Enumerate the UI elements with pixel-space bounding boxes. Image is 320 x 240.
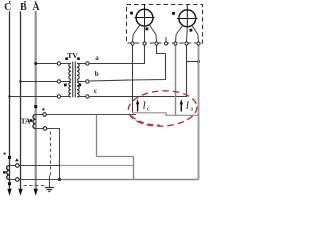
wire T7 down right side: [198, 46, 200, 180]
wire B to TV primary: [21, 81, 59, 83]
transformer TA-C marks: [4, 153, 6, 155]
TV primary upper winding: [69, 63, 71, 79]
node B label: [20, 1, 27, 13]
wire a line to meter: [89, 46, 144, 64]
wire Z-path vertical x96: [96, 115, 98, 157]
dashed ground cable vertical: [50, 132, 52, 177]
TV polarity squares: [64, 57, 81, 86]
wire c line to meter: [89, 46, 186, 97]
node C label: [4, 1, 11, 13]
TA-A winding: [33, 115, 36, 129]
TV winding leads: [61, 63, 86, 97]
M2 polarity squares: [172, 12, 175, 15]
wire phase A bus: [35, 11, 37, 190]
junction on A: [34, 62, 37, 65]
meter box dashed: [127, 5, 203, 44]
node A label: [32, 1, 40, 13]
wire phase B bus: [20, 11, 22, 189]
TV secondary upper winding: [77, 63, 79, 79]
wire bridge T6-T7: [187, 61, 199, 63]
wire T5 current down: [175, 46, 177, 116]
wire C to TV primary: [10, 96, 59, 98]
wire b line to meter: [89, 54, 165, 82]
svg-text:a: a: [95, 54, 99, 62]
TA-C k2 terminal: [15, 178, 19, 182]
wire phase C bus: [9, 11, 11, 189]
dashed ground cable horizontal: [24, 185, 47, 187]
TA-C polarity square: [3, 171, 6, 174]
TA-A k2 terminal: [43, 127, 47, 131]
TV terminal a: [86, 62, 89, 65]
meter M2: [179, 10, 196, 27]
wire rail grey part: [62, 179, 199, 181]
M1 polarity squares: [130, 12, 133, 15]
red highlight ellipse: [127, 89, 197, 128]
wire k1 lead grey continuation: [60, 165, 134, 167]
M2 cross: [177, 18, 197, 20]
svg-text:TV: TV: [67, 51, 78, 60]
arrow phase A bottom: [34, 189, 38, 196]
TV terminal C: [57, 95, 60, 98]
wire grey segment to T5/T7: [133, 113, 199, 116]
arrow Ia: [180, 102, 182, 112]
wire A to TV primary: [36, 63, 58, 65]
svg-text:c: c: [147, 106, 150, 113]
svg-text:I: I: [185, 101, 190, 112]
TV terminal A: [57, 62, 60, 65]
TV terminal b: [86, 80, 89, 83]
junction on C: [8, 95, 10, 97]
svg-text:b: b: [95, 70, 99, 78]
TV primary lower winding: [69, 82, 71, 97]
wire Z-path vertical x133: [133, 157, 135, 180]
TV terminal B: [57, 80, 60, 83]
transformer TV core: [73, 62, 76, 98]
M1 fan wires: [133, 25, 157, 42]
junction T7 bridge: [197, 60, 200, 63]
ground symbol: [45, 188, 54, 192]
arrow Ic: [137, 102, 139, 112]
TA-C lower mark: [8, 182, 11, 185]
M1 cross: [134, 17, 154, 19]
junction on B: [19, 80, 21, 82]
TA-C k1 terminal: [15, 164, 19, 168]
TA-C winding: [7, 166, 10, 180]
arrow phase B bottom: [18, 189, 22, 196]
meter M1: [136, 9, 153, 26]
wire TA-A k1 lead long line: [36, 114, 136, 116]
TA-A polarity square: [30, 119, 33, 122]
wire bridge T3-T4: [157, 46, 166, 54]
svg-text:c: c: [94, 87, 97, 95]
TA-A dot: [42, 108, 44, 110]
wire Z-path horizontal y156: [97, 156, 134, 158]
arrow phase C bottom: [7, 189, 11, 196]
stub above T4: [165, 37, 167, 42]
TA-A primary mark: [34, 105, 37, 108]
svg-text:I: I: [142, 101, 147, 112]
TA-C arrow mark: [15, 158, 19, 161]
svg-text:TA: TA: [21, 116, 31, 125]
wire T1 current down: [132, 46, 134, 113]
wire bottom rail: [10, 179, 63, 181]
wire TA-A k2 lead: [36, 129, 60, 180]
wire TA-C k1 lead: [10, 165, 61, 167]
svg-text:C: C: [4, 2, 11, 13]
M2 fan wires: [176, 25, 199, 42]
TV secondary lower winding: [77, 82, 79, 97]
svg-text:a: a: [190, 106, 193, 113]
TV terminal c: [86, 95, 89, 98]
junction k2 to rail: [58, 178, 61, 181]
meter terminals: [131, 42, 200, 45]
TA-A k1 terminal: [43, 113, 47, 117]
ground stub: [49, 176, 51, 188]
